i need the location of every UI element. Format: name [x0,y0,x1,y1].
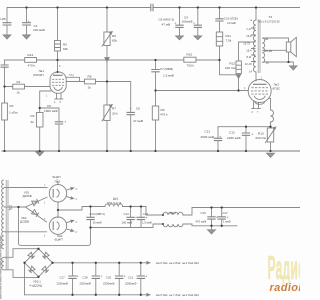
wire C9 drop with ground [179,8,181,37]
capacitor C17 [68,276,76,278]
capacitor C1 series input [1,65,9,67]
transformer Tr1 taps [4,188,6,232]
svg-text:6Ц4П: 6Ц4П [55,238,63,242]
wire Tr1 tap mid to diodes [6,206,26,208]
svg-text:radiolo: radiolo [270,282,301,294]
wire Tr1 tap A to La3 [6,187,48,189]
wire C9b drop with ground [197,8,199,37]
svg-text:15,4: 15,4 [246,49,252,53]
wire psu ground stem [211,226,213,230]
wire chassis dash border [0,236,2,300]
tube La4 heater arrows right [67,221,73,231]
capacitor C5 [55,122,63,124]
svg-text:С12: С12 [229,131,235,135]
resistor R12 trimmer [236,61,241,74]
wire heater plus bus [53,262,147,264]
svg-text:R2: R2 [10,104,14,108]
wire R13 to ground bus [270,142,272,151]
svg-text:750 k: 750 k [187,64,195,68]
svg-text:+: + [219,135,221,139]
svg-text:2260мкФ: 2260мкФ [125,282,137,286]
svg-text:2200мкФ: 2200мкФ [80,282,92,286]
pin digits La1 [46,65,74,104]
resistor R7 trimmer [102,105,112,122]
tube La3 heater arrows right [67,188,73,198]
labels heater caps [57,276,137,286]
tube La4 anode bar [52,221,54,230]
ground psu common [208,230,216,234]
svg-text:2260 мкФ: 2260 мкФ [227,136,241,140]
choke Dr1 coil [105,204,123,207]
resistor R1 [13,84,25,89]
tube La4 envelope [49,217,66,234]
capacitor C20 [115,276,123,278]
svg-text:R11: R11 [226,34,232,38]
tube La2 cathode arc [254,96,265,100]
svg-text:С10 (ЛСЕ): С10 (ЛСЕ) [224,17,238,21]
svg-text:1,5 мкФ: 1,5 мкФ [142,220,152,224]
tube La4 cathode arc [57,222,60,230]
svg-text:47 мкФ: 47 мкФ [133,119,144,123]
node dot speaker return [287,61,289,63]
svg-text:+: + [64,120,66,124]
node dots heater buses [71,262,73,264]
resistor R11 [216,32,222,46]
svg-text:1k: 1k [88,86,92,90]
capacitor C21 [137,276,145,278]
svg-text:1 мкФ: 1 мкФ [223,220,231,224]
wire VD1 diagonal [26,197,48,207]
speaker Гр1 [286,37,296,56]
capacitor C10 series [215,19,223,21]
wire cathode node horizontal [218,126,271,128]
svg-text:(6Н32П: (6Н32П [33,73,44,77]
wire VD2 diagonal [26,207,47,222]
wire heater cap drops [73,263,141,295]
wire C3 drop [6,25,8,35]
ground mid bus left [36,152,43,156]
svg-text:С18: С18 [83,276,89,280]
wire T4 primary feed [255,8,257,21]
svg-text:220 мкФ: 220 мкФ [33,28,46,32]
svg-text:10 мФ: 10 мФ [227,21,236,25]
wire C16 drop [140,207,142,228]
svg-text:Тр1: Тр1 [9,205,13,211]
wire coil to R13 [270,122,272,128]
capacitor C8 series [151,4,153,12]
ground under C9 [176,36,184,40]
wire T4 primary to anode [255,72,257,81]
wire R12 tap riser [239,42,256,61]
resistor R9 [152,106,158,120]
wire R11 jog to R12 [220,60,237,75]
svg-text:+: + [216,215,218,219]
node dots mid [3,85,5,87]
svg-text:1,5 мкФ: 1,5 мкФ [163,74,175,78]
wire T4 primary tap ticks [252,28,256,62]
svg-text:R9: R9 [161,108,165,112]
tube La3 envelope [49,185,66,202]
tube La1 anode bar [53,74,63,76]
svg-text:2260мкФ: 2260мкФ [57,282,69,286]
wire C12 drop [245,127,247,151]
svg-text:100мкФ: 100мкФ [182,20,194,24]
arrow heater bus plus [146,262,150,264]
wire La3 top stub [57,182,59,185]
ground under C3 [3,35,11,39]
svg-text:7,5k: 7,5k [226,39,232,43]
svg-text:47 мФ: 47 мФ [162,23,171,27]
tube La1 envelope [50,72,66,93]
svg-text:С21: С21 [128,276,134,280]
labels T4 primary numbers [243,19,252,74]
svg-text:3000 мкФ: 3000 мкФ [201,135,215,139]
choke Dr2 bottom coil [163,224,183,227]
wire Dr2 bottom out [183,224,237,226]
wire B+ top rail left part [7,8,151,24]
svg-text:+: + [175,21,177,25]
svg-text:ДП1-5-0,14: ДП1-5-0,14 [107,201,122,205]
svg-text:На 6 Ла1, на 2 Ла2, на 4 Ла3,Л: На 6 Ла1, на 2 Ла2, на 4 Ла3,Ла4 [156,261,199,265]
svg-text:470 k: 470 k [160,113,168,117]
diode VD2 [32,210,39,217]
capacitor C15 [207,217,215,219]
wire C7 coupling vertical [155,60,157,91]
svg-text:1,17: 1,17 [246,27,252,31]
capacitor C3 [3,23,12,25]
svg-text:R13: R13 [258,132,264,136]
svg-text:R4: R4 [31,114,35,118]
svg-text:6П3С: 6П3С [273,87,282,91]
svg-text:620 Ом: 620 Ом [256,136,267,140]
wire R6 drop [106,8,108,59]
bridge diode 4 [28,266,35,273]
wire Tr1 tap C to La4 [6,231,47,233]
plus polarity marks [28,19,254,278]
svg-text:2200мкФ: 2200мкФ [103,282,115,286]
node dots psu [17,206,19,208]
svg-text:R6: R6 [112,34,116,38]
capacitor C4 [22,23,31,25]
svg-text:R5: R5 [63,43,67,47]
svg-text:14: 14 [249,70,252,74]
wire La1 anode merge [66,77,85,81]
svg-text:470 мкФ: 470 мкФ [196,220,207,224]
svg-text:R8: R8 [88,75,92,79]
svg-text:7 8,2: 7 8,2 [69,74,75,77]
pin digits La2 [244,77,263,115]
svg-text:8,11: 8,11 [246,55,252,59]
wire winding bottom top tap [6,249,39,258]
wire ground bus y151 [2,150,300,152]
svg-text:Др1: Др1 [113,197,119,201]
wire C17a drop [221,208,223,226]
bridge diode 3 [42,266,49,273]
wire B+ to choke jog [58,207,105,211]
svg-text:С11: С11 [205,130,211,134]
capacitor C12 [242,133,250,135]
svg-text:+: + [77,274,79,278]
bridge diode 2 [42,252,49,259]
ground under C4 [23,35,31,39]
svg-text:10,19: 10,19 [245,62,252,66]
svg-text:12,75: 12,75 [243,42,250,46]
arrow R12 wiper [236,75,240,79]
ground under speaker [290,66,297,70]
wire C10 R11 drop [219,8,221,61]
wire R5 drop [57,8,59,61]
wire La1 top pin [57,60,59,72]
svg-text:1 кОм: 1 кОм [9,111,17,115]
capacitor C6 [127,112,135,114]
svg-text:R10: R10 [187,53,193,57]
wire rectifier output node [57,202,59,217]
svg-text:Т4: Т4 [269,15,273,19]
resistor R14 [25,58,37,63]
diode bridge VD5 diamond [25,249,53,277]
capacitor C13 [86,217,94,219]
capacitor C17a [218,217,226,219]
choke Dr2 top coil [163,212,183,215]
wire R8 to C6 corner [96,82,131,152]
diode VD1 [32,199,39,206]
svg-text:ТВз-1,9-127/220-50: ТВз-1,9-127/220-50 [258,20,281,23]
wire C14 drop [130,207,132,228]
svg-text:+: + [124,274,126,278]
wire T4 secondary taps [263,38,293,66]
transformer Tr1 heater winding [2,257,6,270]
wire C11 drop [217,127,219,151]
resistor R13 trimmer [265,127,276,143]
svg-text:30 k: 30 k [112,112,118,116]
wire input vertical [4,60,6,151]
ground under C9b [194,36,202,40]
transformer Tr1 core [6,180,8,270]
svg-text:16 мкФ: 16 мкФ [93,220,102,224]
wire node line y60 [5,59,220,61]
svg-text:1k: 1k [17,91,21,95]
tube La2 bottom bump [255,101,265,104]
svg-text:+: + [130,107,132,111]
pin digits La3 La4 [44,179,78,238]
resistor R5 [55,41,61,52]
wire heater minus bus [25,294,147,296]
tube La1 grids dashed [52,79,64,85]
svg-text:Д226Б: Д226Б [20,220,29,224]
resistor R2 [2,103,8,120]
svg-text:+: + [146,216,148,220]
svg-text:Д226Б: Д226Б [23,194,32,198]
svg-text:Др 2: Др 2 [170,211,177,215]
svg-text:С7 (МБМ): С7 (МБМ) [160,67,173,71]
wire winding bottom bottom tap [6,270,39,278]
svg-text:0Б: 0Б [265,37,268,41]
wire Dr2 top out [183,208,300,216]
svg-text:+: + [193,21,195,25]
node dots ground bus [3,150,5,152]
wire La2 heater pins [252,102,260,109]
transformer T4 primary coil [253,20,256,72]
svg-text:+: + [226,215,228,219]
svg-text:1Б: 1Б [266,61,269,65]
wire R9 leak [155,91,157,152]
svg-text:На 5 Ла1, на 7 Ла2, на 3 Ла3,Л: На 5 Ла1, на 7 Ла2, на 3 Ла3,Ла4 [156,293,199,297]
svg-text:4-хД226Д: 4-хД226Д [30,284,42,288]
svg-text:С20: С20 [106,276,112,280]
transformer T4 secondary coil [262,38,264,63]
transformer T4 core [258,20,260,74]
tube La1 cathode arc [54,87,63,91]
wire La1 heater pins [55,93,63,99]
svg-text:С15: С15 [201,211,207,215]
svg-text:С17: С17 [60,276,66,280]
svg-text:100 мкФ: 100 мкФ [122,220,133,224]
transformer Tr1 upper winding [2,180,4,249]
node dots line y60 [56,59,58,61]
wire caps common rail [91,224,164,228]
wire La2 cathode [269,98,271,110]
svg-text:С5: С5 [47,104,51,108]
tube La2 envelope [248,80,271,103]
wire La1 cathode [40,91,51,151]
svg-text:С13 (МБГЧ): С13 (МБГЧ) [90,212,105,216]
svg-text:1800 мкФ: 1800 мкФ [44,109,58,113]
arrow R6 wiper into wire [105,58,109,62]
svg-text:+: + [100,274,102,278]
svg-text:С6: С6 [136,107,140,111]
feedback winding coil [271,110,274,122]
wire bridge minus riser [24,263,26,295]
svg-text:100 Ом: 100 Ом [225,66,236,70]
capacitor C9b [194,25,202,27]
bridge diode 1 [28,252,35,259]
capacitor C11 [214,138,222,140]
svg-text:82k: 82k [63,47,68,51]
capacitor C16 [137,217,145,219]
resistor R6 trimmer [102,32,112,47]
node dots bridge [37,248,39,250]
tube La2 anode bar [253,83,266,85]
svg-text:С14: С14 [124,212,130,216]
svg-text:+: + [145,274,147,278]
ground under R13 [267,153,275,157]
tube La3 cathode arc [57,189,60,197]
svg-text:R14: R14 [28,53,34,57]
capacitor C18 [92,276,100,278]
svg-text:+: + [135,216,137,220]
svg-text:470 k: 470 k [28,64,36,68]
svg-text:С8 (К40У-2): С8 (К40У-2) [159,18,175,22]
svg-text:82k: 82k [112,39,117,43]
svg-text:16,8: 16,8 [246,34,252,38]
wire choke to Dr2 [123,207,164,216]
tube La2 grids dashed [251,88,268,94]
wire grid line to La2 [156,90,249,92]
capacitor C7 series [151,70,159,72]
resistor R4 [36,113,43,128]
svg-text:R7: R7 [112,107,116,111]
wire R12 bottom to grid [238,78,240,91]
node dots top rail [25,6,27,8]
wire R1 grid [5,86,50,88]
tube La3 anode bar [52,189,54,198]
wire C5 branch [40,108,59,151]
svg-text:0-2В: 0-2В [0,17,6,21]
wire R7 branch vertical [106,60,108,151]
svg-text:R1: R1 [17,80,21,84]
svg-text:25,2Б: 25,2Б [265,49,272,53]
wire C4 drop [26,8,28,36]
svg-text:+: + [28,19,30,23]
resistor R8 [85,79,96,84]
capacitor C14 [126,217,134,219]
resistor R10 [184,57,196,62]
wire C13 drop and return riser [19,207,91,246]
arrow heater bus minus [146,294,150,296]
svg-text:+: + [251,132,253,136]
wire B+ top rail right part [153,7,300,9]
wire C15 drop [211,208,213,226]
svg-text:2k: 2k [31,120,35,124]
capacitor C9 [175,25,183,27]
